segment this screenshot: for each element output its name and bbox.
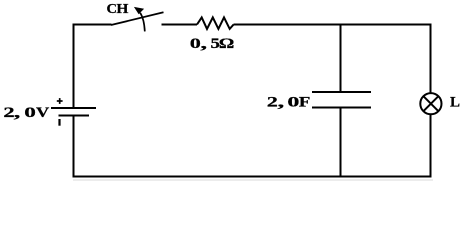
svg-text:H: H: [116, 1, 129, 16]
svg-text:,: ,: [200, 35, 207, 51]
svg-text:,: ,: [14, 104, 21, 120]
svg-text:,: ,: [278, 93, 285, 109]
svg-text:F: F: [299, 93, 311, 110]
svg-text:L: L: [450, 94, 460, 110]
svg-text:0: 0: [190, 35, 201, 52]
svg-text:0: 0: [287, 94, 299, 110]
svg-text:0: 0: [24, 105, 36, 121]
svg-text:Ω: Ω: [219, 35, 235, 51]
svg-text:2: 2: [267, 94, 278, 111]
svg-text:V: V: [36, 104, 49, 121]
